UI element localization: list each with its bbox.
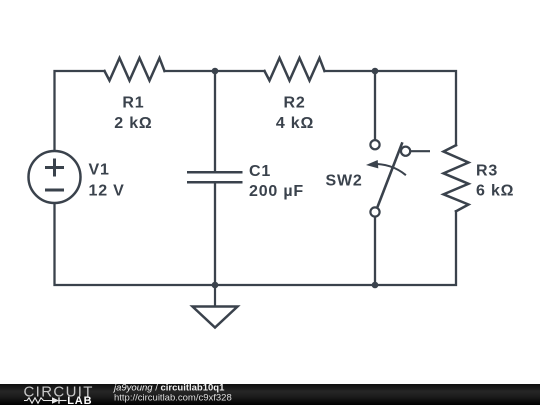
svg-text:R3: R3 — [476, 163, 498, 180]
footer bar — [0, 384, 540, 405]
svg-text:SW2: SW2 — [326, 173, 363, 190]
svg-text:2 kΩ: 2 kΩ — [114, 115, 152, 132]
svg-text:6 kΩ: 6 kΩ — [476, 183, 514, 200]
wire bottom rail: ground node to V1 — [55, 203, 216, 285]
svg-text:12 V: 12 V — [89, 183, 125, 200]
svg-text:4 kΩ: 4 kΩ — [276, 115, 314, 132]
voltage source V1 — [29, 151, 81, 203]
wire node B to R3 top — [375, 71, 456, 145]
SW2 right throw terminal — [401, 147, 410, 156]
wire R3 to bottom rail — [375, 211, 456, 285]
svg-text:http://circuitlab.com/c9xf328: http://circuitlab.com/c9xf328 — [114, 393, 232, 404]
switch SW2 — [370, 140, 430, 217]
SW2 top terminal — [370, 140, 379, 149]
wire R2 to node B — [325, 70, 376, 72]
wire C1 to bottom rail — [214, 184, 216, 286]
CircuitLab logo resistor-diode glyph — [24, 397, 67, 403]
SW2 motion arrowhead — [366, 160, 378, 168]
wire R1 to node A — [165, 70, 216, 72]
wire node A to C1 — [214, 71, 216, 171]
wire V1 top to R1 — [55, 71, 105, 151]
svg-text:R1: R1 — [122, 95, 144, 112]
junction node A — [212, 68, 219, 75]
svg-text:LAB: LAB — [67, 395, 92, 405]
SW2 throw stub wire — [410, 150, 430, 152]
junction node D (switch bottom) — [372, 282, 379, 289]
svg-text:C1: C1 — [249, 163, 271, 180]
wire SW2 bottom terminal to bottom rail — [374, 217, 376, 285]
wire node A to R2 — [215, 70, 265, 72]
SW2 motion arc — [372, 164, 406, 175]
junction node C (ground node) — [212, 282, 219, 289]
wire node B to SW2 top terminal — [374, 71, 376, 140]
capacitor C1 — [187, 172, 243, 182]
svg-text:R2: R2 — [283, 95, 305, 112]
svg-text:200 µF: 200 µF — [249, 183, 304, 200]
resistor R1 — [105, 58, 165, 81]
resistor R3 — [444, 145, 469, 211]
SW2 lever — [377, 142, 402, 207]
SW2 bottom terminal — [370, 207, 379, 216]
junction node B — [372, 68, 379, 75]
wire bottom rail: switch to ground node — [215, 284, 375, 286]
ground — [193, 285, 238, 328]
svg-text:V1: V1 — [89, 162, 110, 179]
resistor R2 — [265, 58, 325, 81]
